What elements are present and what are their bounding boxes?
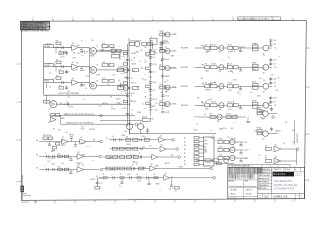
svg-text:D2-4672-1: D2-4672-1 (22, 202, 30, 204)
svg-text:1N645: 1N645 (205, 71, 209, 73)
svg-text:Q12: Q12 (219, 90, 222, 92)
svg-text:Q3 2N336: Q3 2N336 (171, 34, 177, 36)
svg-text:C16 .02: C16 .02 (152, 50, 157, 52)
svg-text:1K: 1K (265, 155, 267, 157)
svg-text:15V 1W: 15V 1W (231, 138, 236, 140)
svg-text:470: 470 (53, 129, 55, 131)
svg-text:R78 330: R78 330 (257, 108, 262, 110)
resistor R1 (56, 41, 61, 45)
svg-text:220: 220 (141, 68, 143, 70)
svg-text:C-169: C-169 (51, 163, 55, 165)
svg-text:C19 .02: C19 .02 (152, 99, 157, 101)
resistor R12 (150, 51, 158, 54)
svg-text:C: C (276, 133, 277, 135)
svg-text:MOD: MOD (204, 144, 207, 146)
wire (158, 156, 178, 158)
svg-text:15V: 15V (140, 50, 142, 52)
svg-text:10K: 10K (265, 158, 267, 160)
capacitor C37 (48, 142, 51, 146)
svg-text:2N697 1W: 2N697 1W (239, 47, 245, 49)
logo right text (295, 172, 302, 177)
resistor R41 (252, 101, 258, 109)
relay K1 (150, 36, 157, 44)
svg-text:2N336: 2N336 (61, 118, 65, 120)
op-amp U7 (49, 101, 57, 111)
junction (127, 69, 128, 70)
svg-text:680: 680 (197, 98, 199, 100)
capacitor C20 (149, 57, 156, 59)
svg-text:TO SH 2: TO SH 2 (178, 166, 183, 168)
resistor R36 (227, 83, 238, 88)
capacitor C63 (270, 107, 274, 111)
capacitor C14 (126, 95, 133, 97)
svg-text:2N336: 2N336 (137, 112, 141, 114)
title block signature column (258, 168, 272, 190)
document number strip (top-right) (238, 17, 281, 21)
op-amp U2 (90, 46, 99, 55)
svg-text:4.7K 1W: 4.7K 1W (108, 158, 114, 160)
svg-text:1N457: 1N457 (135, 52, 139, 54)
wire (281, 160, 297, 162)
svg-text:1K: 1K (259, 155, 261, 157)
capacitor C2 (65, 51, 68, 55)
capacitor C17 (146, 64, 157, 70)
element tick marks (149, 44, 152, 110)
svg-text:100: 100 (235, 115, 237, 117)
resistor R37 (252, 82, 258, 90)
op-amp U8 (48, 117, 56, 124)
wire (195, 104, 205, 106)
svg-text:2.2K: 2.2K (101, 51, 104, 53)
resistor R53 (119, 147, 124, 150)
svg-text:R24: R24 (159, 84, 162, 86)
svg-text:1K: 1K (150, 85, 152, 87)
resistor R66 (103, 174, 107, 179)
capacitor C9 (80, 83, 85, 88)
svg-text:2N336: 2N336 (122, 135, 126, 137)
svg-text:33K 1W: 33K 1W (165, 163, 170, 165)
capacitor C55 (146, 174, 148, 179)
value labels (205, 90, 232, 92)
svg-text:10K: 10K (144, 80, 146, 82)
op-amp U16 (150, 164, 156, 171)
transistor Q4 (164, 49, 176, 54)
svg-text:10K: 10K (265, 146, 267, 148)
wire (238, 85, 252, 87)
wire (103, 168, 150, 170)
svg-text:47K: 47K (217, 120, 219, 122)
svg-text:1 2: 1 2 (291, 201, 293, 203)
svg-text:2N697: 2N697 (171, 56, 175, 58)
svg-text:R: R (140, 61, 141, 63)
svg-text:680: 680 (231, 128, 233, 130)
capacitor C50 (140, 147, 142, 150)
svg-text:N: N (22, 176, 23, 178)
svg-text:R: R (81, 40, 82, 42)
svg-text:200V: 200V (144, 92, 147, 94)
op-amp U12 (77, 165, 84, 172)
capacitor C57 (148, 178, 151, 185)
svg-text:10K: 10K (144, 62, 146, 64)
capacitor C23 (149, 106, 156, 108)
resistor R64 (126, 167, 131, 170)
svg-text:15V: 15V (127, 174, 129, 176)
svg-text:E6: E6 (36, 168, 38, 170)
svg-text:R34: R34 (205, 83, 208, 85)
svg-text:680 1W: 680 1W (90, 56, 95, 58)
svg-text:680: 680 (225, 69, 227, 71)
wire (166, 148, 176, 150)
svg-text:2N697 5%: 2N697 5% (260, 118, 267, 120)
svg-text:.05: .05 (165, 47, 167, 49)
wire (54, 47, 72, 49)
svg-text:47K: 47K (143, 146, 145, 148)
svg-text:2N336 5%: 2N336 5% (275, 131, 281, 133)
transistor Q7 (164, 102, 176, 107)
interconnect stubs (47, 44, 234, 106)
connector pin field J1 (184, 137, 204, 167)
svg-text:1KV: 1KV (273, 64, 275, 66)
svg-text:1K 2.2K: 1K 2.2K (228, 44, 232, 46)
capacitor C52 (132, 165, 135, 170)
capacitor C53 (112, 174, 114, 179)
wire (165, 139, 172, 141)
reference bubble (100, 140, 103, 143)
wire (269, 104, 272, 106)
transistor Q9 (262, 45, 268, 55)
value labels (205, 71, 232, 73)
svg-text:Q4 2N336: Q4 2N336 (171, 51, 177, 53)
transistor Q6 (164, 85, 176, 90)
svg-text:1K 2.2K: 1K 2.2K (228, 64, 232, 66)
resistor R69 (154, 174, 158, 179)
resistor R24 (159, 84, 164, 89)
wire (96, 178, 98, 186)
resistor R65 (138, 167, 143, 170)
capacitor C46 (146, 128, 149, 134)
svg-text:R37 680: R37 680 (252, 82, 257, 84)
transistor Q20 (229, 147, 235, 152)
svg-text:R33 680: R33 680 (252, 63, 257, 65)
capacitor C22 (149, 90, 156, 92)
svg-text:15V: 15V (233, 122, 235, 124)
svg-text:U3: U3 (72, 62, 74, 64)
svg-text:220: 220 (49, 158, 51, 160)
svg-text:CR: CR (233, 147, 235, 149)
svg-text:R25: R25 (159, 101, 162, 103)
svg-text:47K: 47K (161, 92, 163, 94)
resistor R44 (58, 153, 63, 158)
svg-text:R: R (173, 188, 174, 190)
svg-text:R: R (279, 57, 280, 59)
svg-text:200V: 200V (144, 74, 147, 76)
svg-text:470: 470 (64, 104, 66, 106)
resistor R16 (123, 100, 136, 103)
title block contract row (272, 167, 305, 171)
wire (268, 133, 277, 135)
capacitor C43 (45, 166, 48, 172)
wire (90, 48, 128, 51)
svg-text:CR 1W: CR 1W (163, 86, 168, 88)
svg-text:SCHEMATIC: SCHEMATIC (274, 179, 294, 183)
svg-text:2.2K 470: 2.2K 470 (226, 114, 231, 116)
transistor Q11 (262, 64, 268, 74)
svg-text:2.2K: 2.2K (155, 110, 158, 112)
resistor R15 (123, 82, 136, 85)
svg-text:15V 1W: 15V 1W (110, 170, 115, 172)
capacitor C4 (60, 63, 63, 68)
reference bubble (135, 123, 138, 126)
resistor R57 (113, 156, 118, 159)
svg-text:C: C (233, 47, 234, 49)
svg-text:2N697: 2N697 (259, 86, 263, 88)
resistor R28 (227, 44, 238, 49)
svg-text:.05 1W: .05 1W (130, 93, 135, 95)
resistor R60 (133, 156, 138, 159)
resistor R72 (226, 114, 237, 119)
capacitor C32 (269, 58, 277, 66)
svg-text:Q1 2N336: Q1 2N336 (118, 67, 124, 69)
svg-text:SEE SHEET 2 FOR NOTES + REF DW: SEE SHEET 2 FOR NOTES + REF DWGS (21, 30, 49, 32)
wire (110, 148, 158, 150)
resistor R23 (159, 65, 164, 70)
resistor R35 (211, 83, 217, 88)
wire (258, 66, 263, 68)
svg-text:10K: 10K (214, 82, 216, 84)
capacitor C39 (74, 142, 77, 147)
resistor R31 (211, 64, 217, 69)
resistor R7 (56, 75, 61, 79)
wire (46, 95, 48, 104)
svg-text:SIG IN B: SIG IN B (44, 65, 49, 67)
svg-text:10K: 10K (120, 186, 122, 188)
svg-text:4.7K: 4.7K (102, 78, 105, 80)
wire (78, 47, 89, 49)
resistor R59 (126, 156, 131, 159)
svg-text:U4: U4 (96, 65, 98, 67)
svg-text:1K: 1K (59, 50, 61, 52)
svg-text:47K: 47K (271, 74, 273, 76)
svg-text:C21 .1: C21 .1 (152, 72, 156, 74)
wire (39, 156, 77, 158)
svg-text:U10: U10 (80, 137, 83, 139)
junction (127, 85, 128, 86)
svg-text:Q7 2N336: Q7 2N336 (171, 104, 177, 106)
svg-text:60B45100: 60B45100 (230, 194, 236, 196)
resistor R27 (211, 44, 217, 49)
svg-text:10K: 10K (132, 70, 134, 72)
svg-text:.02: .02 (66, 101, 68, 103)
capacitor C8 (65, 86, 68, 90)
svg-text:BIT 4 INPUT: BIT 4 INPUT (181, 86, 188, 88)
zone ticks bottom (34, 199, 295, 206)
svg-text:TP6: TP6 (171, 155, 174, 157)
svg-text:10K: 10K (144, 97, 146, 99)
svg-text:2N336 1W: 2N336 1W (76, 163, 83, 165)
resistor R50 (133, 138, 138, 141)
resistor R38 (205, 102, 210, 107)
op-amp U11 (77, 152, 84, 159)
resistor R40 (227, 102, 238, 107)
wire (121, 50, 129, 52)
svg-text:220 5%: 220 5% (244, 158, 249, 160)
svg-text:3.3K: 3.3K (126, 136, 129, 138)
module box M1 (204, 137, 215, 166)
svg-text:2.2K: 2.2K (67, 91, 70, 93)
resistor R77 (205, 159, 219, 162)
svg-text:R61 5W: R61 5W (142, 116, 147, 118)
resistor R29 (252, 43, 258, 51)
resistor R34 (205, 83, 210, 88)
wire (195, 85, 205, 87)
svg-text:U1: U1 (72, 43, 74, 45)
wire (100, 120, 142, 122)
wire (84, 156, 99, 158)
op-amp U14 (160, 145, 166, 152)
resistor R26 (205, 44, 210, 49)
svg-text:CR 1W: CR 1W (69, 106, 74, 108)
capacitor C40 (45, 153, 48, 159)
svg-text:1KV: 1KV (273, 44, 275, 46)
capacitor C64 (270, 127, 274, 131)
svg-text:47K 1W: 47K 1W (130, 155, 135, 157)
wire (258, 47, 263, 49)
transistor Q23 (262, 111, 268, 121)
svg-text:6.8K: 6.8K (292, 130, 295, 132)
capacitor C3 (80, 48, 85, 53)
capacitor C25 (161, 59, 169, 62)
svg-text:10K: 10K (167, 109, 169, 111)
svg-text:47K: 47K (155, 52, 157, 54)
resistor R49 (126, 136, 131, 141)
svg-text:R41 680: R41 680 (252, 101, 257, 103)
wire (54, 82, 72, 84)
svg-text:1KV: 1KV (273, 102, 275, 104)
capacitor C54 (129, 174, 131, 179)
svg-text:2.2K: 2.2K (131, 108, 133, 110)
svg-text:E5: E5 (36, 155, 38, 157)
svg-text:C20 .1: C20 .1 (152, 57, 156, 59)
value labels (205, 51, 232, 53)
svg-text:.02 MFD: .02 MFD (121, 91, 125, 93)
svg-text:R14 10K: R14 10K (131, 63, 136, 65)
svg-text:C28 .05: C28 .05 (165, 112, 169, 114)
transistor Q3 (164, 32, 176, 37)
svg-text:1K: 1K (59, 85, 61, 87)
svg-text:4.7K: 4.7K (285, 122, 288, 124)
svg-text:100: 100 (237, 92, 239, 94)
capacitor C31 (239, 67, 242, 71)
capacitor C65 (96, 182, 103, 185)
value labels (205, 109, 232, 111)
svg-text:4.7K: 4.7K (102, 62, 105, 64)
wire (54, 66, 72, 68)
resistor R48 (142, 116, 150, 121)
svg-text:220: 220 (149, 146, 151, 148)
svg-text:Q14: Q14 (219, 109, 222, 111)
wire (39, 141, 62, 143)
svg-text:(+) 28V DC BUS PWR SUPPLY RTN: (+) 28V DC BUS PWR SUPPLY RTN (REF 4-3) (64, 114, 95, 116)
reference bubble (178, 156, 181, 159)
capacitor C27 (161, 95, 169, 98)
svg-text:U7: U7 (49, 109, 51, 111)
wire (99, 177, 164, 179)
svg-text:2K: 2K (120, 174, 122, 176)
svg-text:BIT 3 INPUT: BIT 3 INPUT (181, 67, 188, 69)
svg-text:USED ON: USED ON (246, 189, 251, 191)
svg-text:CR: CR (227, 137, 229, 139)
net boxes (50, 114, 60, 117)
resistor R61 (106, 167, 111, 170)
resistor R83 (95, 187, 102, 190)
junction (127, 50, 128, 51)
capacitor C42 (70, 157, 73, 161)
reference bubble (100, 168, 103, 171)
svg-text:15V: 15V (84, 53, 86, 55)
wire (103, 156, 152, 158)
resistor R9 (102, 78, 114, 82)
svg-text:4.7K: 4.7K (102, 43, 105, 45)
svg-text:U6: U6 (96, 80, 98, 82)
wire (109, 139, 159, 141)
op-amp U22 (274, 156, 281, 164)
drawing title text (274, 179, 298, 190)
svg-text:U13: U13 (159, 135, 162, 137)
capacitor C38 (69, 134, 73, 141)
svg-text:Q10: Q10 (219, 71, 222, 73)
wire (269, 66, 272, 68)
svg-text:2.2K: 2.2K (210, 99, 213, 101)
title block number row (258, 193, 305, 199)
svg-text:2.2K: 2.2K (47, 161, 50, 163)
op-amp U10 (80, 137, 86, 144)
wire (84, 169, 99, 171)
wire (44, 94, 129, 96)
svg-text:Q17: Q17 (143, 127, 146, 129)
svg-text:CR2 1N457 R9 10K: CR2 1N457 R9 10K (130, 41, 141, 43)
resistor R70 (175, 186, 180, 192)
svg-text:C34 .1: C34 .1 (273, 79, 277, 81)
wire (235, 141, 244, 143)
svg-text:470 1W: 470 1W (170, 68, 175, 70)
svg-text:1K 2.2K: 1K 2.2K (228, 102, 232, 104)
svg-text:1K: 1K (171, 177, 173, 179)
wire (238, 47, 252, 49)
svg-text:4.7K: 4.7K (77, 53, 80, 55)
capacitor C34 (269, 77, 277, 85)
resistor R47 (64, 168, 69, 171)
resistor R21 (159, 31, 164, 36)
node input SIG IN C (44, 80, 54, 83)
svg-text:U2: U2 (96, 46, 98, 48)
reference bubble (272, 116, 275, 119)
capacitor C59 (247, 117, 252, 124)
capacitor C45 (70, 170, 73, 174)
svg-text:N4: N4 (60, 103, 62, 105)
top stage cluster (130, 41, 153, 47)
transistor Q18 (217, 114, 222, 123)
op-amp U6 (90, 80, 99, 89)
svg-text:4.7K 1W: 4.7K 1W (194, 117, 199, 119)
wire (57, 103, 129, 105)
svg-text:R51 1K R52 2K: R51 1K R52 2K (43, 135, 51, 137)
svg-text:R21: R21 (159, 31, 162, 33)
stage with transistor Q1 (118, 67, 139, 73)
svg-text:P1: P1 (204, 114, 206, 116)
resistor R6 (102, 62, 114, 66)
resistor R32 (227, 64, 238, 69)
svg-text:CODE IDENT: CODE IDENT (263, 194, 270, 196)
